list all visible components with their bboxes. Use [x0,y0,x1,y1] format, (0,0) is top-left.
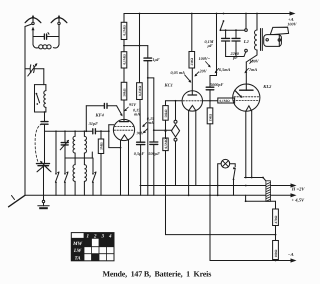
svg-text:+ 4,5V: + 4,5V [292,198,306,203]
svg-text:MW: MW [72,241,82,247]
svg-text:90V: 90V [137,131,145,136]
svg-text:100Ω: 100Ω [274,249,278,257]
svg-text:TA: TA [75,256,82,262]
svg-text:0,2MΩ: 0,2MΩ [122,25,126,35]
svg-text:0,05 mA: 0,05 mA [171,70,186,75]
svg-text:31pF: 31pF [88,121,98,126]
svg-text:7mA: 7mA [249,67,257,72]
svg-text:mA: mA [148,120,154,125]
svg-text:6,5mA: 6,5mA [219,67,230,72]
svg-text:KL2: KL2 [262,84,272,89]
svg-text:100V~: 100V~ [199,56,211,61]
svg-text:2MΩ: 2MΩ [190,58,194,66]
svg-text:50kΩ: 50kΩ [122,88,126,96]
svg-text:−A: −A [288,252,294,257]
svg-text:0,5MΩ: 0,5MΩ [164,138,168,148]
svg-text:3MΩ: 3MΩ [99,142,103,150]
svg-text:1MΩ: 1MΩ [208,114,212,122]
svg-text:4: 4 [108,234,112,240]
svg-text:KF4: KF4 [95,113,105,118]
svg-text:0,3MΩ: 0,3MΩ [138,86,142,96]
svg-text:0,1MΩ: 0,1MΩ [122,54,126,64]
svg-text:2: 2 [93,234,97,240]
svg-text:1µF: 1µF [152,57,160,62]
svg-text:µF: µF [207,43,213,48]
svg-text:470Ω: 470Ω [274,215,278,223]
svg-text:0,1MΩ: 0,1MΩ [220,99,230,103]
svg-text:95V: 95V [129,102,137,107]
svg-text:1: 1 [87,234,90,240]
svg-text:0,5µF: 0,5µF [134,151,145,156]
svg-text:50kΩ: 50kΩ [164,109,168,117]
svg-text:H =2V: H =2V [291,186,306,191]
svg-text:500µF: 500µF [148,151,160,156]
svg-text:KC1: KC1 [164,82,173,87]
svg-text:pF: pF [232,55,238,60]
svg-text:100V: 100V [287,22,297,27]
svg-text:3: 3 [101,234,105,240]
svg-text:180V: 180V [250,59,260,64]
svg-text:LW: LW [73,248,82,254]
svg-text:Mende, 147 B, Batterie, 1: Mende, 147 B, Batterie, 1 Kreis [103,270,212,279]
svg-text:5000pF: 5000pF [210,82,223,87]
svg-text:mA: mA [134,112,140,117]
svg-text:20V: 20V [199,68,208,73]
svg-text:L2: L2 [243,39,249,44]
